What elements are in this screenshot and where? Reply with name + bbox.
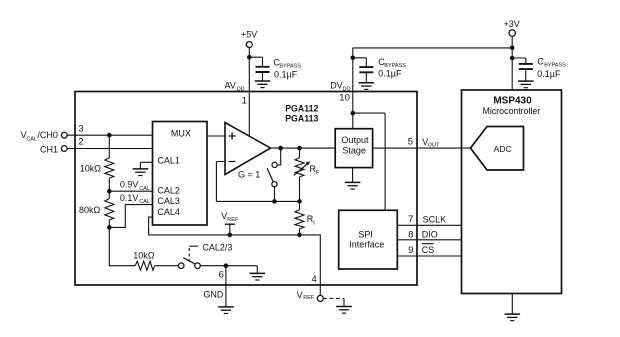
svg-text:MSP430: MSP430 bbox=[493, 95, 532, 106]
svg-text:+5V: +5V bbox=[241, 29, 257, 39]
svg-text:AV: AV bbox=[225, 80, 236, 90]
svg-text:CAL2: CAL2 bbox=[157, 185, 180, 195]
svg-text:+3V: +3V bbox=[504, 19, 520, 29]
svg-text:Interface: Interface bbox=[349, 239, 384, 249]
svg-text:REF: REF bbox=[303, 295, 315, 301]
svg-text:1: 1 bbox=[242, 96, 247, 107]
svg-text:10: 10 bbox=[339, 92, 350, 103]
svg-text:PGA113: PGA113 bbox=[285, 113, 318, 123]
svg-text:SCLK: SCLK bbox=[423, 214, 447, 224]
svg-text:2: 2 bbox=[78, 137, 83, 148]
svg-text:V: V bbox=[297, 290, 303, 300]
svg-text:10kΩ: 10kΩ bbox=[80, 164, 102, 174]
svg-text:SPI: SPI bbox=[358, 230, 373, 240]
svg-text:DIO: DIO bbox=[422, 229, 438, 239]
svg-text:80kΩ: 80kΩ bbox=[79, 205, 101, 215]
svg-text:DD: DD bbox=[343, 86, 351, 92]
svg-text:CAL: CAL bbox=[26, 136, 37, 142]
svg-text:CAL: CAL bbox=[139, 199, 150, 205]
svg-text:0.1µF: 0.1µF bbox=[537, 69, 561, 79]
svg-text:PGA112: PGA112 bbox=[285, 103, 318, 113]
svg-text:5: 5 bbox=[408, 137, 413, 148]
svg-text:G = 1: G = 1 bbox=[238, 169, 260, 179]
svg-text:OUT: OUT bbox=[428, 143, 440, 149]
svg-text:CAL: CAL bbox=[139, 186, 150, 192]
svg-text:CAL4: CAL4 bbox=[157, 207, 180, 217]
svg-text:GND: GND bbox=[203, 289, 224, 299]
svg-text:DD: DD bbox=[237, 86, 245, 92]
svg-text:REF: REF bbox=[227, 217, 239, 223]
svg-text:Output: Output bbox=[342, 135, 370, 145]
svg-text:/CH0: /CH0 bbox=[37, 130, 58, 140]
svg-text:4: 4 bbox=[312, 274, 317, 285]
svg-text:BYPASS: BYPASS bbox=[544, 62, 566, 68]
svg-text:CAL3: CAL3 bbox=[157, 196, 180, 206]
svg-text:CH1: CH1 bbox=[40, 144, 58, 154]
svg-text:10kΩ: 10kΩ bbox=[133, 251, 155, 261]
svg-text:0.1V: 0.1V bbox=[120, 193, 139, 203]
svg-text:BYPASS: BYPASS bbox=[384, 63, 406, 69]
svg-text:0.1µF: 0.1µF bbox=[378, 69, 402, 79]
svg-text:CS: CS bbox=[422, 245, 435, 255]
svg-text:BYPASS: BYPASS bbox=[279, 63, 301, 69]
svg-text:6: 6 bbox=[219, 269, 224, 280]
svg-text:0.9V: 0.9V bbox=[120, 180, 139, 190]
svg-text:Stage: Stage bbox=[342, 146, 366, 156]
svg-text:3: 3 bbox=[78, 123, 83, 134]
svg-text:8: 8 bbox=[408, 229, 413, 240]
svg-text:MUX: MUX bbox=[171, 128, 191, 138]
svg-text:Microcontroller: Microcontroller bbox=[483, 106, 541, 116]
svg-text:ADC: ADC bbox=[494, 144, 512, 154]
svg-text:CAL2/3: CAL2/3 bbox=[202, 242, 232, 252]
svg-text:DV: DV bbox=[330, 80, 343, 90]
svg-text:9: 9 bbox=[408, 245, 413, 256]
svg-text:0.1µF: 0.1µF bbox=[274, 70, 298, 80]
svg-text:CAL1: CAL1 bbox=[157, 155, 180, 165]
svg-text:7: 7 bbox=[408, 214, 413, 225]
